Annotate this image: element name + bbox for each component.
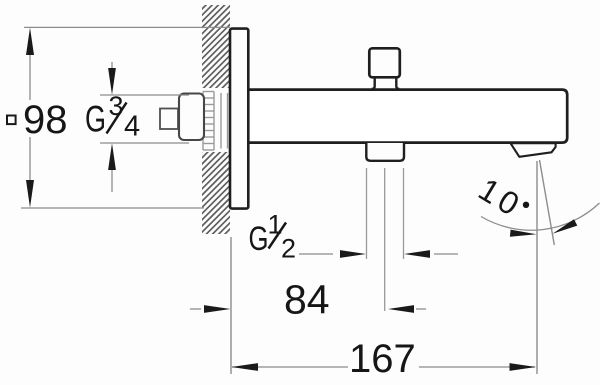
dim 167 row xyxy=(232,366,348,368)
angle arc arrowhead left-pointing at tilted line xyxy=(553,219,578,234)
spout body xyxy=(246,90,567,143)
wall hatch xyxy=(201,0,231,258)
dim G3/4: top extension line xyxy=(100,94,189,96)
dim G3/4: bottom extension line xyxy=(100,142,189,144)
label 10deg xyxy=(472,171,529,225)
spout outlet lip xyxy=(511,143,556,157)
dim 98: bottom extension line xyxy=(21,207,204,209)
angle arc arrowhead right-pointing at vertical line xyxy=(510,230,537,237)
svg-text:4: 4 xyxy=(124,111,140,143)
label square 98 xyxy=(7,116,16,125)
angle tilted line 10deg xyxy=(540,160,555,245)
wall face extension line xyxy=(230,237,232,374)
svg-text:167: 167 xyxy=(349,337,416,381)
dim G3/4: bottom leader + arrow xyxy=(111,170,113,192)
dim 98: top extension line xyxy=(24,26,230,28)
pipe stub xyxy=(160,109,178,130)
union nut xyxy=(179,94,204,141)
dim G1/2 arrows row xyxy=(299,253,333,255)
dim 98: arrow up xyxy=(26,28,34,55)
dim 98: dimension line xyxy=(29,50,31,100)
svg-text:84: 84 xyxy=(284,277,330,323)
diverter knob xyxy=(369,48,400,77)
dim 98: arrow down xyxy=(26,180,34,208)
diverter outlet extension lines xyxy=(366,168,368,259)
angle reference vertical line xyxy=(536,161,538,374)
svg-text:98: 98 xyxy=(23,98,68,142)
angle arc xyxy=(481,203,600,230)
wall flange plate xyxy=(230,29,248,209)
wall pipe G3/4 thread xyxy=(202,90,230,151)
svg-text:G: G xyxy=(85,99,106,140)
knob neck xyxy=(372,78,400,89)
dim 84 row xyxy=(190,308,201,310)
diverter nub under body xyxy=(366,143,404,161)
dim G3/4: top leader + arrow xyxy=(111,62,113,70)
svg-text:G: G xyxy=(249,220,269,258)
svg-text:2: 2 xyxy=(281,234,296,264)
